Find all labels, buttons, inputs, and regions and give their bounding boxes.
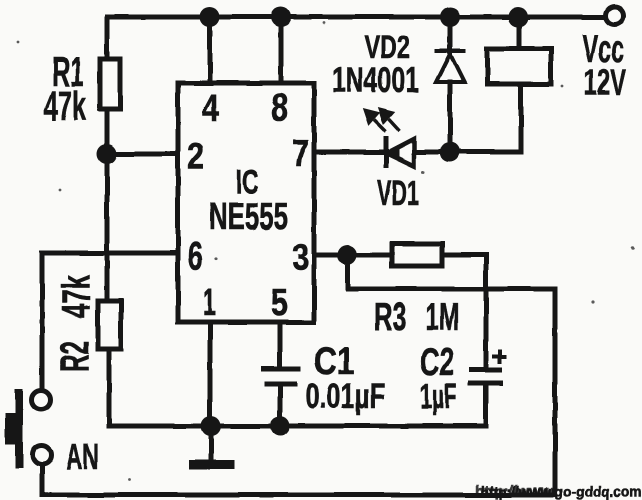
- svg-text:12V: 12V: [584, 62, 626, 103]
- svg-text:47k: 47k: [55, 275, 99, 318]
- svg-text:5: 5: [271, 282, 288, 324]
- svg-text:R3: R3: [374, 296, 407, 339]
- svg-text:1: 1: [203, 282, 216, 324]
- svg-text:AN: AN: [66, 436, 99, 477]
- svg-text:NE555: NE555: [209, 196, 288, 238]
- svg-text:1N4001: 1N4001: [332, 59, 419, 100]
- svg-text:2: 2: [187, 136, 204, 178]
- svg-text:http://www.go-gddq.com: http://www.go-gddq.com: [481, 484, 642, 500]
- svg-text:8: 8: [271, 87, 288, 129]
- svg-text:VD1: VD1: [377, 174, 419, 213]
- svg-text:1M: 1M: [426, 296, 459, 339]
- svg-text:7: 7: [292, 133, 309, 175]
- svg-text:6: 6: [188, 233, 203, 279]
- svg-text:47k: 47k: [44, 83, 86, 129]
- svg-text:0.01µF: 0.01µF: [305, 377, 385, 416]
- svg-text:3: 3: [292, 237, 309, 279]
- svg-text:R2: R2: [53, 341, 97, 372]
- svg-text:1µF: 1µF: [420, 377, 457, 416]
- svg-text:4: 4: [202, 88, 219, 130]
